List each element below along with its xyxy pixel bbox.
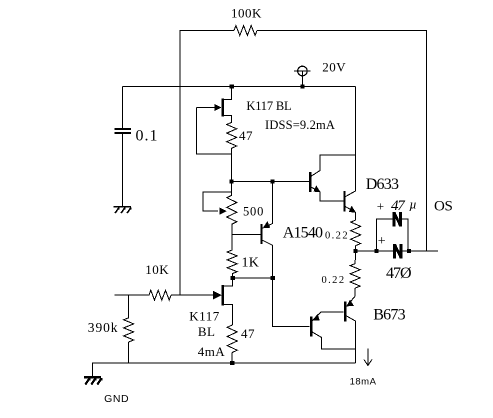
transistor Q3 collector [263,240,273,245]
transistor Q6 B673a bar [310,316,312,336]
junction node right [271,276,275,280]
wire feedback top [180,31,234,296]
current arrow 18mA [364,349,372,366]
junction 20V [300,84,304,88]
wire cap branch top [122,87,124,129]
svg-text:A1540: A1540 [283,224,323,241]
transistor Q1 K117BL bar [221,99,223,117]
svg-text:47: 47 [239,128,253,143]
svg-text:BL: BL [198,324,216,339]
transistor Q7 B673b arrow [347,300,354,307]
svg-text:0.1: 0.1 [136,128,159,145]
svg-text:GND: GND [104,393,129,405]
svg-text:D633: D633 [366,176,399,193]
wire Q5 emitter down [355,212,357,220]
resistor R 390k [124,318,134,342]
resistor R 0.22 upper [351,220,361,246]
resistor R 500 trimmer [227,195,237,224]
junction mid rail left [230,180,234,184]
wire A1540 emitter up [272,182,274,224]
trimmer wiper arrow [219,208,226,215]
wire supply drop right [355,87,357,156]
svg-text:1K: 1K [242,255,260,270]
transistor Q2 gate arrow [213,291,222,300]
wire gate feedback loop [197,108,232,154]
junction output left [353,249,357,253]
wire D633 collector column [355,155,357,191]
resistor R 47 upper [227,122,237,148]
svg-text:OS: OS [434,198,453,214]
transistor Q7 collector [346,316,355,363]
svg-text:B673: B673 [373,306,405,323]
transistor Q6 emitter [312,312,343,321]
transistor Q6 collector [312,332,356,349]
resistor R 47 lower [227,325,237,353]
ground main [84,377,103,384]
wire to B673 base [273,278,310,326]
transistor Q6 emitter arrow [313,314,320,321]
transistor Q3 emitter [263,223,273,228]
transistor Q5 D633b bar [343,191,345,212]
capacitor C 47u top [393,212,402,226]
resistor R 10K [149,290,171,300]
resistor R 0.22 lower [350,264,360,289]
transistor Q1 gate wire [197,107,217,109]
transistor Q5 emitter arrow [349,206,356,213]
svg-text:K117 BL: K117 BL [246,99,291,113]
wire output line [355,250,438,252]
transistor Q3 A1540 bar [260,224,262,244]
svg-text:+: + [378,234,386,249]
wire to output node [354,246,356,251]
svg-text:K117: K117 [189,308,219,323]
svg-text:47: 47 [241,326,255,341]
wire cap branch bottom [122,134,124,206]
wire 47 to rail [231,353,233,364]
wire cap box [376,219,393,251]
wire supply rail [123,86,356,88]
svg-text:0.22: 0.22 [322,275,346,286]
wire 0.22 to B673 emitter [347,288,355,306]
wire cap box right [402,219,408,251]
capacitor C 47u bottom [393,244,402,258]
resistor R 100K [234,26,257,36]
wire A1540 base [232,234,261,236]
wire source node down [231,148,233,181]
wire 10K to gate [171,294,216,296]
power terminal 20V circle [298,66,308,76]
wire rail to 500 [231,182,233,196]
wire A1540 collector down [272,245,274,278]
junction mid rail emitter [271,180,275,184]
wire drain lower JFET [224,278,233,286]
svg-text:20V: 20V [322,60,346,75]
svg-text:IDSS=9.2mA: IDSS=9.2mA [265,118,335,132]
wire 390k to rail [128,342,130,363]
wire source lower JFET [224,305,232,325]
junction output right [407,249,411,253]
wire mid rail [232,181,311,183]
transistor Q5 collector [346,191,356,197]
transistor Q4 D633a bar [309,172,311,192]
svg-text:47Ø: 47Ø [386,265,411,282]
junction output mid [374,249,378,253]
svg-text:18mA: 18mA [350,377,377,388]
wire 390k drop [128,295,130,318]
wire bottom rail [93,363,356,376]
wire input line [114,294,149,296]
wire 1K to node [231,274,234,278]
svg-text:4mA: 4mA [198,344,226,359]
wire trimmer wiper loop [203,192,231,211]
transistor Q2 K117BL bar [222,285,224,305]
transistor Q4 emitter arrow [313,185,320,192]
transistor Q7 B673b bar [344,301,346,321]
wire Q4 emitter to Q5 base [320,192,343,201]
wire feedback top right [257,31,427,252]
transistor Q4 collector [311,155,355,176]
wire node cross [233,277,273,279]
wire drain upper JFET [224,87,232,100]
wire source upper JFET [224,116,232,123]
transistor Q5 emitter [346,207,356,213]
svg-text:+: + [377,198,385,213]
capacitor C 0.1 plates [115,129,131,133]
svg-text:100K: 100K [231,6,262,21]
svg-text:0.22: 0.22 [325,231,349,242]
junction rail 47 [230,361,234,365]
svg-text:500: 500 [243,205,264,219]
wire 20V to rail [301,71,303,87]
wire 500 to 1K [231,224,233,250]
transistor Q1 gate arrow [214,104,221,111]
svg-text:µ: µ [409,197,417,212]
resistor R 1K [227,250,237,274]
junction node left [231,276,235,280]
svg-text:10K: 10K [145,262,169,277]
wire output to lower 0.22 [354,251,356,264]
transistor Q3 emitter arrow [263,221,270,228]
power terminal 20V bar [294,70,311,72]
transistor Q4 emitter [311,187,320,192]
junction rail-drain [230,84,234,88]
ground cap branch [113,207,131,213]
svg-text:390k: 390k [88,320,119,335]
